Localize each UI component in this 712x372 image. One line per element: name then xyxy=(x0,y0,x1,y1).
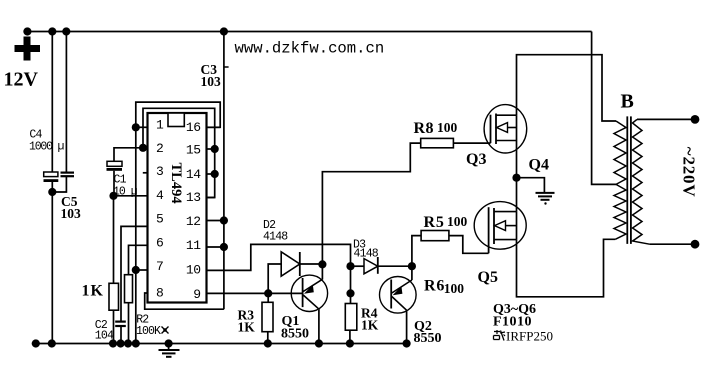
battery + terminal symbol xyxy=(15,37,41,61)
label 1K xyxy=(82,283,104,300)
wire +12V to primary center tap xyxy=(592,32,616,185)
wire pin2 to C1 xyxy=(114,148,143,162)
resistor R5 (horizontal) xyxy=(421,231,449,241)
capacitor C4 xyxy=(44,172,59,182)
label C2 value xyxy=(95,330,114,343)
svg-text:15: 15 xyxy=(186,143,201,158)
wire R2 to ground rail xyxy=(128,303,130,344)
svg-text:12V: 12V xyxy=(4,69,39,91)
wire C4 branch xyxy=(51,32,53,344)
wire Q2 emitter up xyxy=(411,266,413,280)
wire pin1-pin16 outer hat xyxy=(136,102,220,127)
wire C5 branch xyxy=(52,32,66,193)
wire 1K to ground rail xyxy=(113,310,115,343)
diode D2 4148 xyxy=(281,252,300,276)
label Q1 type xyxy=(281,327,309,342)
wire Q2 collector to ground rail xyxy=(406,311,408,344)
svg-text:B: B xyxy=(621,91,634,113)
svg-text:R5: R5 xyxy=(424,214,445,231)
label R3 xyxy=(238,308,255,323)
svg-text:C1: C1 xyxy=(114,173,127,186)
svg-text:100K: 100K xyxy=(136,325,161,338)
label R3 value xyxy=(238,320,256,335)
wire pin2 stub xyxy=(143,147,148,149)
node pin7 junction xyxy=(132,266,140,274)
svg-text:11: 11 xyxy=(186,238,201,253)
wire R3 top xyxy=(267,293,269,302)
wire D3 anode xyxy=(351,265,365,267)
wire pin3 stub xyxy=(143,172,148,174)
transformer primary winding lower xyxy=(614,184,626,239)
label D2 xyxy=(263,219,276,232)
node bottom rail junction dots xyxy=(32,339,411,347)
transistor Q3 MOSFET xyxy=(484,105,527,153)
wire R5 left xyxy=(412,236,421,267)
svg-text:8550: 8550 xyxy=(414,331,442,346)
label C5 value xyxy=(61,206,82,221)
wire R4 top xyxy=(350,293,352,303)
transistor Q5 MOSFET xyxy=(474,202,526,254)
label website www.dzkfw.com.cn xyxy=(235,40,385,58)
label R2 xyxy=(136,313,149,326)
wire pin8 to VCC line xyxy=(145,293,224,309)
wire D2 anode drop xyxy=(268,264,281,293)
label ~220V xyxy=(680,147,699,198)
svg-text:1: 1 xyxy=(156,118,164,133)
wire D2 cathode to node xyxy=(300,263,323,265)
label R6 value xyxy=(444,281,465,296)
label TL494 xyxy=(168,163,184,204)
svg-text:4148: 4148 xyxy=(263,230,288,243)
label D2 value xyxy=(263,230,288,243)
label C1 value xyxy=(113,186,138,199)
label R2 value xyxy=(136,325,169,338)
wire C1 bottom to node xyxy=(113,171,115,196)
svg-text:100: 100 xyxy=(437,120,458,135)
svg-text:1K: 1K xyxy=(238,320,256,335)
capacitor C3 tick xyxy=(224,66,229,68)
wire pin6 to R2 xyxy=(129,245,148,274)
label D3 value xyxy=(354,247,379,260)
wire Q5 source to transformer bottom xyxy=(517,239,616,296)
node pin4/C1/R 1K junction xyxy=(109,192,117,200)
ground symbol main xyxy=(159,344,180,357)
label D3 xyxy=(353,238,366,251)
svg-text:F1010: F1010 xyxy=(493,315,532,330)
wire C2 to ground rail xyxy=(120,327,122,344)
node pin14 junction xyxy=(211,170,219,178)
op-amp U1 TL494 body xyxy=(148,113,207,303)
svg-text:10: 10 xyxy=(186,263,201,278)
label Q3 xyxy=(466,151,486,168)
svg-text:12: 12 xyxy=(186,214,201,229)
wire pin12 stub xyxy=(207,220,224,222)
label R8 xyxy=(414,120,435,137)
svg-text:14: 14 xyxy=(186,167,201,182)
wire ground bottom rail xyxy=(32,343,408,345)
svg-text:Q3: Q3 xyxy=(466,151,486,168)
svg-text:www.dzkfw.com.cn: www.dzkfw.com.cn xyxy=(235,40,385,58)
transistor Q2 8550 xyxy=(380,277,417,314)
svg-text:4148: 4148 xyxy=(354,247,379,260)
label Q5 xyxy=(478,269,498,286)
svg-text:1K: 1K xyxy=(361,318,379,333)
svg-text:Q4: Q4 xyxy=(529,156,549,173)
wire Q1 emitter up / gate drive xyxy=(322,143,420,279)
svg-text:7: 7 xyxy=(156,259,163,274)
label C1 xyxy=(114,173,127,186)
label C5 xyxy=(61,194,78,209)
wire D3 cathode to node xyxy=(378,265,412,267)
wire pin5 to C2 xyxy=(121,226,148,321)
wire pin1 to pin7 ground line xyxy=(135,127,137,343)
label R4 value xyxy=(361,318,379,333)
wire C3/VCC vertical line pin12 pin11 xyxy=(223,32,225,310)
label C4 value xyxy=(29,141,65,154)
label Q2 type xyxy=(414,331,442,346)
wire pin4 to C1/1K node xyxy=(114,195,148,197)
capacitor C1 xyxy=(107,161,123,171)
svg-text:13: 13 xyxy=(186,190,201,205)
labels IC pin numbers xyxy=(156,118,201,303)
label Q2 xyxy=(414,319,432,334)
wire pin9 to Q1 base xyxy=(207,292,303,294)
svg-text:TL494: TL494 xyxy=(168,163,184,204)
wire R8 to Q3 gate xyxy=(453,142,490,144)
wire pin1 stub xyxy=(136,126,148,128)
speck under Q4 ground xyxy=(544,202,546,204)
label C2 xyxy=(95,319,108,332)
transistor Q1 8550 xyxy=(291,275,327,311)
wire secondary top terminal xyxy=(637,118,695,120)
resistor 1K (vertical) xyxy=(109,283,119,310)
transformer secondary winding xyxy=(633,119,650,244)
svg-text:IRFP250: IRFP250 xyxy=(506,329,553,344)
node pin9 / D2 anode / R3 junction xyxy=(264,289,272,297)
svg-text:R8: R8 xyxy=(414,120,435,137)
resistor R3 (vertical) xyxy=(262,302,273,331)
label Q4 xyxy=(529,156,549,173)
svg-text:8550: 8550 xyxy=(281,327,309,342)
diode D3 4148 xyxy=(364,257,378,274)
node D2 cathode / Q1 emitter junction xyxy=(318,260,326,268)
svg-text:100: 100 xyxy=(444,281,465,296)
node D3 cathode / Q2 emitter / R5 junction xyxy=(408,262,416,270)
wire pin2-pin13/14/15 inner hat xyxy=(143,108,215,197)
svg-text:C4: C4 xyxy=(29,129,42,142)
svg-text:9: 9 xyxy=(193,287,200,302)
label 12V xyxy=(4,69,39,91)
svg-text:16: 16 xyxy=(186,120,201,135)
wire pin10 to driver xyxy=(207,244,351,270)
wire pin14 stub xyxy=(207,173,215,175)
resistor R2 (vertical) xyxy=(125,275,133,303)
svg-text:Q5: Q5 xyxy=(478,269,498,286)
wire +12V top rail xyxy=(27,31,591,33)
wire Q1 collector to ground rail xyxy=(318,310,320,344)
svg-text:100: 100 xyxy=(447,214,468,229)
label B transformer xyxy=(621,91,634,113)
svg-text:2: 2 xyxy=(156,141,163,156)
svg-text:R6: R6 xyxy=(424,278,445,295)
node pin11 junction xyxy=(220,243,228,251)
svg-text:104: 104 xyxy=(95,330,114,343)
label C4 xyxy=(29,129,42,142)
node +12V rail junction dots xyxy=(23,27,228,35)
svg-text:103: 103 xyxy=(61,206,82,221)
label Q1 xyxy=(282,314,300,329)
transformer core xyxy=(627,116,631,243)
label R8 value xyxy=(437,120,458,135)
wire node to resistor 1K xyxy=(113,196,115,283)
transformer primary winding upper xyxy=(614,121,626,184)
wire pin16 stub xyxy=(207,126,221,128)
label R6 xyxy=(424,278,445,295)
resistor R4 (vertical) xyxy=(345,304,357,331)
label C3 value xyxy=(201,74,222,89)
label Q3~Q6 xyxy=(493,302,536,317)
wire pin7 stub xyxy=(136,269,148,271)
node secondary top terminal xyxy=(691,115,700,124)
svg-text:1000 µ: 1000 µ xyxy=(29,141,65,154)
capacitor C5 xyxy=(61,173,75,177)
svg-text:103: 103 xyxy=(201,74,222,89)
svg-text:5: 5 xyxy=(156,212,163,227)
label R5 value xyxy=(447,214,468,229)
wire to Q4 ground xyxy=(517,178,545,193)
resistor R8 (horizontal) xyxy=(421,138,454,147)
svg-text:8: 8 xyxy=(156,286,163,301)
wire R5 to Q5 gate xyxy=(449,236,489,254)
capacitor C2 xyxy=(115,322,126,326)
wire secondary bottom terminal xyxy=(650,243,695,245)
wire R4 to ground rail xyxy=(349,330,351,343)
wire Q3 drain to transformer top xyxy=(517,55,617,121)
wire pin13 stub xyxy=(207,197,215,199)
label C3 xyxy=(201,62,218,77)
node secondary bottom terminal xyxy=(691,240,700,249)
ground symbol at Q4 xyxy=(536,193,555,200)
label R4 xyxy=(361,306,378,321)
node D3 anode junction xyxy=(346,262,354,270)
node pin12 junction xyxy=(220,216,228,224)
node C4/C5 junction xyxy=(48,188,56,196)
svg-text:1K: 1K xyxy=(82,283,104,300)
node Q3 source / Q5 drain junction xyxy=(512,174,520,182)
wire R3 to ground rail xyxy=(267,332,269,344)
wire pin11 stub xyxy=(207,246,224,248)
svg-text:~220V: ~220V xyxy=(680,147,699,198)
label F1010 xyxy=(493,315,532,330)
wire pin15 stub xyxy=(207,148,215,150)
wire Q3 source down xyxy=(516,141,518,212)
node pin2 junction xyxy=(139,144,147,152)
svg-text:4: 4 xyxy=(156,188,164,203)
node pin15 junction xyxy=(211,145,219,153)
wire D3 anode node to Q2 base node xyxy=(350,266,352,293)
label IRFP250 xyxy=(494,329,553,344)
svg-text:3: 3 xyxy=(156,164,163,179)
svg-text:6: 6 xyxy=(156,236,163,251)
node Q2 base / R4 junction xyxy=(346,289,354,297)
label R5 xyxy=(424,214,445,231)
node pin1 junction xyxy=(132,123,140,131)
